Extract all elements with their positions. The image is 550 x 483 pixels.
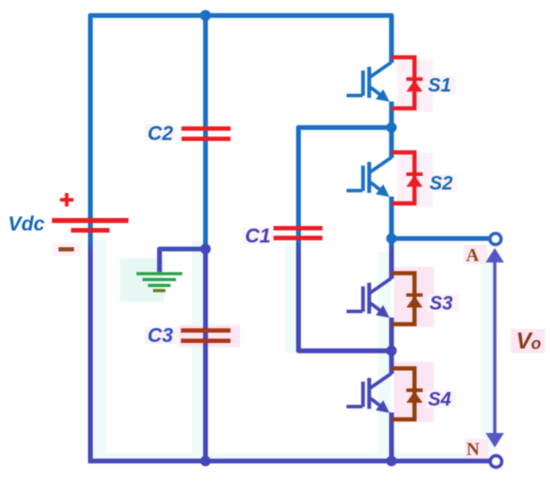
svg-text:Vdc: Vdc [8, 214, 45, 236]
svg-text:N: N [467, 439, 480, 459]
svg-text:C2: C2 [148, 123, 174, 145]
svg-text:C3: C3 [148, 325, 174, 347]
svg-text:C1: C1 [245, 226, 271, 248]
svg-text:S4: S4 [428, 390, 452, 411]
svg-text:S1: S1 [428, 76, 451, 97]
svg-text:S3: S3 [430, 294, 454, 315]
svg-text:A: A [466, 245, 479, 265]
svg-text:o: o [531, 335, 541, 353]
svg-text:S2: S2 [430, 174, 454, 195]
